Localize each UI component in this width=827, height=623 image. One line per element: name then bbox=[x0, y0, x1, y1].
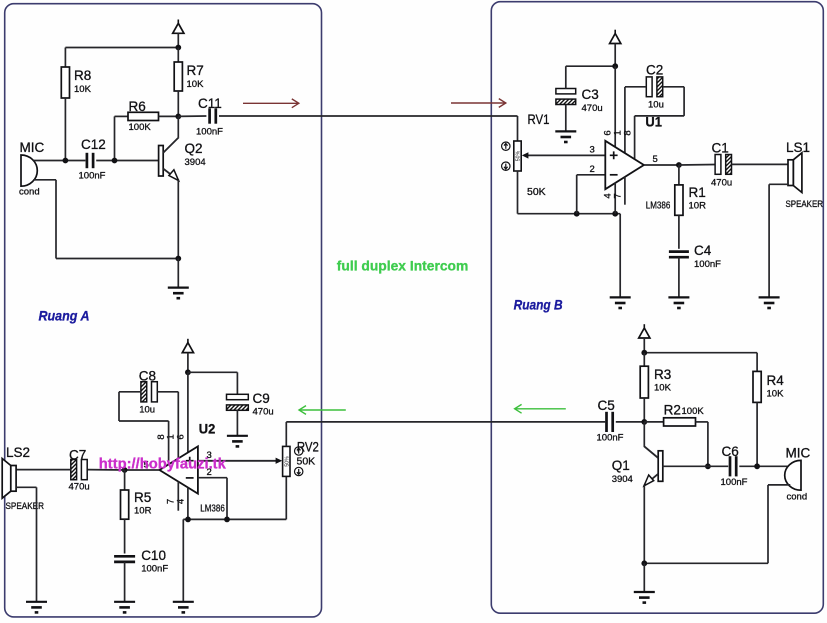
wire C3 top lead bbox=[565, 66, 567, 88]
wire C8 to pin1 bbox=[157, 391, 178, 393]
node R2-base junction bbox=[705, 463, 711, 469]
wire pin2 riser bbox=[576, 175, 578, 214]
wire R6 feedback drop bbox=[114, 116, 116, 160]
svg-text:100nF: 100nF bbox=[196, 127, 223, 138]
op-amp U1 LM386 bbox=[605, 141, 644, 189]
ground C3 bbox=[555, 131, 576, 142]
svg-text:50%: 50% bbox=[516, 150, 522, 161]
svg-text:8: 8 bbox=[156, 434, 167, 439]
svg-text:full duplex Intercom: full duplex Intercom bbox=[337, 258, 469, 274]
node VCC junction U1 bbox=[612, 63, 618, 69]
svg-text:http://hobyfauzi.tk: http://hobyfauzi.tk bbox=[99, 455, 227, 472]
wire C9 to ground bbox=[236, 410, 238, 435]
svg-text:7: 7 bbox=[613, 193, 624, 198]
wire C5 to collector node bbox=[616, 421, 645, 423]
wire LS2 to C7 bbox=[16, 469, 71, 471]
wire to ground A bbox=[177, 259, 179, 288]
wire LS1 ground drop bbox=[768, 184, 770, 296]
svg-text:C1: C1 bbox=[712, 141, 729, 156]
node pin4 junction bbox=[612, 211, 618, 217]
wire MIC B bottom lead bbox=[768, 484, 790, 486]
ground room A preamp bbox=[168, 288, 189, 299]
wire C8 loop to pin8 bbox=[119, 420, 169, 422]
wire U1 pin6 V+ bbox=[614, 66, 616, 148]
wire VCC to rail node bbox=[177, 33, 179, 47]
svg-text:8: 8 bbox=[622, 130, 633, 135]
capacitor C2 bbox=[646, 77, 662, 97]
svg-text:10K: 10K bbox=[74, 84, 92, 95]
svg-text:U2: U2 bbox=[199, 422, 216, 437]
wire U1 pin2 lead bbox=[577, 174, 606, 176]
svg-text:50K: 50K bbox=[297, 456, 316, 468]
svg-text:RV2: RV2 bbox=[297, 440, 319, 455]
potentiometer RV2 bbox=[283, 446, 291, 476]
svg-text:MIC: MIC bbox=[786, 446, 811, 461]
svg-text:SPEAKER: SPEAKER bbox=[786, 199, 824, 210]
wire R2 left lead bbox=[644, 421, 663, 423]
wire U2 pin6 V+ bbox=[187, 372, 189, 454]
resistor R6 bbox=[128, 112, 159, 120]
minus input mark U2 bbox=[186, 477, 194, 479]
wire U2 pin4 gnd bbox=[187, 488, 189, 520]
wire VCC drop U1 bbox=[614, 44, 616, 67]
wire U1 bottom rail bbox=[518, 213, 621, 215]
wire C9 top lead bbox=[236, 372, 238, 394]
svg-text:LM386: LM386 bbox=[200, 504, 225, 515]
node R8-MIC junction bbox=[63, 158, 69, 164]
capacitor C5 bbox=[607, 412, 613, 432]
wire VCC to rail node B bbox=[643, 338, 645, 353]
node pin2 junction bbox=[574, 211, 580, 217]
svg-text:U1: U1 bbox=[645, 115, 662, 130]
capacitor C6 bbox=[730, 456, 736, 476]
svg-text:6: 6 bbox=[176, 434, 187, 439]
wire R2 right lead bbox=[696, 421, 708, 423]
svg-text:2: 2 bbox=[590, 164, 595, 175]
signal arrow B to A (left) bbox=[299, 406, 346, 415]
wire LS1 return lead bbox=[769, 183, 788, 185]
node pin2 junction U2 bbox=[224, 517, 230, 523]
resistor R2 bbox=[664, 418, 696, 426]
wire C10 to ground bbox=[124, 562, 126, 601]
ground C10 bbox=[114, 602, 135, 613]
wire MIC return drop bbox=[55, 180, 57, 259]
node U1 output junction bbox=[676, 162, 682, 168]
ground room B preamp bbox=[634, 592, 655, 603]
capacitor C8 bbox=[141, 382, 157, 402]
svg-text:3: 3 bbox=[590, 145, 595, 156]
enclosure Ruang A box bbox=[5, 4, 322, 617]
node VCC rail A bbox=[175, 45, 181, 51]
svg-text:10K: 10K bbox=[767, 389, 785, 400]
svg-text:R5: R5 bbox=[134, 490, 151, 505]
plus input mark U2 bbox=[186, 457, 194, 465]
wire C2 right lead bbox=[663, 86, 684, 88]
signal arrow A to B (right) bbox=[451, 99, 506, 108]
power +V room B preamp bbox=[639, 324, 650, 338]
capacitor C1 bbox=[715, 155, 731, 175]
svg-text:SPEAKER: SPEAKER bbox=[6, 501, 45, 512]
svg-text:470u: 470u bbox=[711, 178, 732, 189]
wire to ground B bbox=[643, 563, 645, 591]
wire U1 ground drop bbox=[619, 214, 621, 297]
ground U2 bbox=[173, 602, 194, 613]
svg-text:100K: 100K bbox=[682, 406, 705, 417]
wire C8 left lead bbox=[119, 391, 141, 393]
wire U2 pin7 nc bbox=[177, 482, 179, 511]
resistor R8 bbox=[61, 67, 69, 98]
svg-text:C4: C4 bbox=[694, 243, 712, 258]
svg-text:LS1: LS1 bbox=[786, 140, 810, 155]
svg-text:R8: R8 bbox=[74, 68, 91, 83]
wire base to C6 bbox=[708, 465, 728, 467]
wire MIC B return drop bbox=[767, 485, 769, 563]
svg-text:MIC: MIC bbox=[20, 140, 45, 155]
wire intercom line B to A (bottom) bbox=[286, 421, 605, 423]
node emitter-ground junction B bbox=[641, 560, 647, 566]
transistor Q1 (mirrored) bbox=[644, 446, 663, 486]
node R4-MIC junction bbox=[754, 463, 760, 469]
svg-text:3904: 3904 bbox=[185, 157, 206, 168]
svg-text:3904: 3904 bbox=[612, 474, 633, 485]
wire C11 left lead bbox=[178, 115, 206, 117]
wire pin2 drop bbox=[226, 478, 228, 520]
resistor R4 bbox=[753, 371, 761, 402]
wire R3 bottom lead bbox=[643, 398, 645, 422]
svg-text:C7: C7 bbox=[69, 448, 86, 463]
svg-text:100nF: 100nF bbox=[141, 564, 168, 575]
svg-text:R2: R2 bbox=[664, 403, 681, 418]
wire Q1 emitter down bbox=[643, 485, 645, 563]
wire C2 loop to pin8 bbox=[635, 115, 685, 117]
microphone MIC room A bbox=[21, 155, 37, 186]
op-amp U2 LM386 (mirrored) bbox=[160, 446, 198, 493]
wire U2 bottom rail bbox=[183, 518, 286, 520]
node VCC rail B bbox=[641, 350, 647, 356]
svg-text:cond: cond bbox=[19, 187, 40, 198]
wire U1 pin4 gnd bbox=[614, 183, 616, 214]
wire C8 loop down bbox=[118, 392, 120, 421]
svg-text:R6: R6 bbox=[129, 99, 146, 114]
wire RV2 bottom lead bbox=[285, 475, 287, 520]
capacitor C3 bbox=[556, 89, 576, 105]
signal arrow B to A (right) bbox=[515, 404, 566, 413]
wire C3 to ground bbox=[565, 105, 567, 131]
svg-text:10u: 10u bbox=[648, 100, 664, 111]
wire Q1 collector bbox=[643, 422, 645, 446]
svg-text:C9: C9 bbox=[253, 391, 270, 406]
microphone MIC room B bbox=[785, 460, 801, 490]
wiper arrow RV1 bbox=[522, 152, 606, 158]
wire R2 feedback drop bbox=[707, 422, 709, 466]
wire C1 to LS1 bbox=[732, 163, 788, 165]
node pin4 junction U2 bbox=[185, 517, 191, 523]
RV1 terminal mark down bbox=[502, 162, 510, 170]
wire top rail R8-R7 bbox=[65, 47, 178, 49]
wiper arrow RV2 / U2 pin3 wire bbox=[198, 458, 282, 464]
ground U1 bbox=[610, 297, 631, 308]
wire R7 top lead bbox=[177, 48, 179, 63]
svg-text:100nF: 100nF bbox=[694, 259, 721, 270]
wire C2 loop down bbox=[683, 87, 685, 116]
capacitor C10 bbox=[114, 556, 135, 562]
power +V room A preamp bbox=[173, 20, 184, 34]
resistor R5 bbox=[121, 490, 129, 519]
wire VCC to C9 bbox=[188, 371, 238, 373]
resistor R7 bbox=[174, 62, 182, 91]
minus input mark U1 bbox=[610, 174, 618, 176]
loudspeaker LS2 bbox=[2, 459, 16, 499]
svg-text:10R: 10R bbox=[134, 506, 152, 517]
svg-text:100nF: 100nF bbox=[721, 477, 748, 488]
wire emitter return B bbox=[644, 562, 768, 564]
wire R3 top lead bbox=[643, 353, 645, 367]
svg-text:C5: C5 bbox=[598, 398, 615, 413]
wire C2 to pin1 bbox=[625, 86, 646, 88]
node emitter-ground junction bbox=[175, 256, 181, 262]
svg-text:C3: C3 bbox=[582, 87, 599, 102]
capacitor C4 bbox=[669, 252, 689, 258]
svg-text:R4: R4 bbox=[767, 373, 785, 388]
wire R6 left lead bbox=[115, 115, 129, 117]
svg-text:Ruang A: Ruang A bbox=[39, 308, 90, 324]
svg-text:LS2: LS2 bbox=[6, 445, 30, 460]
svg-text:Q1: Q1 bbox=[612, 458, 630, 473]
svg-text:100nF: 100nF bbox=[597, 433, 624, 444]
svg-text:4: 4 bbox=[176, 499, 187, 504]
RV2 terminal mark up bbox=[295, 447, 303, 455]
capacitor C9 bbox=[227, 394, 249, 410]
svg-text:cond: cond bbox=[787, 492, 808, 503]
wire R5 top lead bbox=[124, 470, 126, 490]
wire RV1 bottom lead bbox=[517, 171, 519, 214]
power +V room B amp bbox=[610, 30, 621, 44]
capacitor C11 bbox=[210, 108, 216, 123]
svg-text:LM386: LM386 bbox=[646, 201, 671, 212]
wire U2 output bbox=[125, 469, 160, 471]
wire U2 pin2 lead bbox=[198, 477, 227, 479]
plus input mark U1 bbox=[610, 151, 618, 159]
wire R1 to C4 bbox=[678, 215, 680, 249]
capacitor C12 bbox=[87, 153, 93, 168]
wire U1 pin8 bbox=[634, 116, 636, 159]
svg-text:RV1: RV1 bbox=[528, 112, 550, 127]
RV1 terminal mark up bbox=[502, 142, 510, 150]
svg-text:C2: C2 bbox=[646, 63, 663, 78]
svg-text:7: 7 bbox=[165, 499, 176, 504]
svg-text:10K: 10K bbox=[654, 383, 672, 394]
wire C12 to Q2 base bbox=[96, 160, 159, 162]
node R6-base junction bbox=[112, 158, 118, 164]
svg-text:10u: 10u bbox=[139, 405, 155, 416]
svg-text:C10: C10 bbox=[141, 548, 166, 563]
wire U2 pin8 bbox=[168, 421, 170, 467]
svg-text:470u: 470u bbox=[69, 482, 90, 493]
loudspeaker LS1 bbox=[788, 153, 802, 193]
svg-text:C11: C11 bbox=[198, 96, 222, 111]
wire R1 top lead bbox=[678, 165, 680, 185]
svg-text:100K: 100K bbox=[129, 122, 152, 133]
svg-text:50%: 50% bbox=[285, 456, 291, 467]
power +V room A amp bbox=[182, 339, 193, 353]
wire RV2 top lead bbox=[285, 422, 287, 447]
capacitor C7 bbox=[71, 460, 87, 480]
wire Q2 emitter down bbox=[177, 180, 179, 259]
wire Q2 collector bbox=[177, 116, 179, 137]
svg-text:470u: 470u bbox=[253, 407, 274, 418]
svg-text:50K: 50K bbox=[527, 186, 546, 198]
wire R7 to base node bbox=[177, 91, 179, 116]
wire output to C1 bbox=[679, 164, 716, 167]
svg-text:Q2: Q2 bbox=[185, 141, 203, 156]
node Q2 collector junction bbox=[175, 114, 181, 120]
svg-text:R1: R1 bbox=[689, 185, 706, 200]
wire MIC to C12 bbox=[33, 160, 85, 162]
svg-text:Ruang B: Ruang B bbox=[514, 297, 563, 313]
wire output to C7 bbox=[88, 469, 125, 471]
svg-text:10R: 10R bbox=[689, 201, 707, 212]
wire R4 top lead bbox=[756, 353, 758, 372]
wire C4 to ground bbox=[678, 257, 680, 297]
enclosure Ruang B box bbox=[491, 2, 823, 614]
wire R8 top lead bbox=[64, 48, 66, 68]
wire emitter return bbox=[56, 258, 178, 260]
wire VCC drop U2 bbox=[187, 353, 189, 373]
svg-text:C8: C8 bbox=[139, 369, 156, 384]
RV2 terminal mark down bbox=[295, 467, 303, 475]
ground C9 bbox=[227, 436, 248, 447]
svg-text:5: 5 bbox=[653, 154, 658, 165]
svg-text:C6: C6 bbox=[722, 444, 739, 459]
wire U2 ground drop bbox=[182, 519, 184, 601]
ground LS2 bbox=[26, 602, 47, 613]
wire top rail R3-R4 bbox=[644, 352, 757, 354]
wire U2 pin1 bbox=[177, 392, 179, 461]
wire R6 right lead bbox=[159, 115, 179, 117]
node Q1 collector junction bbox=[641, 419, 647, 425]
svg-text:470u: 470u bbox=[582, 103, 603, 114]
wire C6 to MIC bbox=[739, 465, 789, 467]
wire U1 output bbox=[644, 164, 679, 166]
svg-text:R3: R3 bbox=[654, 367, 671, 382]
transistor Q2 bbox=[159, 137, 179, 180]
node U2 output junction bbox=[122, 467, 128, 473]
potentiometer RV1 bbox=[514, 141, 522, 171]
svg-text:R7: R7 bbox=[187, 63, 204, 78]
ground LS1 bbox=[759, 297, 780, 308]
wire R4 bottom lead bbox=[756, 402, 758, 466]
wire C3 to VCC rail bbox=[566, 65, 615, 67]
wire U1 pin1 bbox=[624, 87, 626, 153]
wire Q1 base lead bbox=[662, 465, 708, 467]
wire intercom line A to B (top) bbox=[219, 115, 518, 117]
wire LS2 ground drop bbox=[36, 487, 38, 601]
wire R5 to C10 bbox=[124, 519, 126, 553]
node VCC junction U2 bbox=[185, 369, 191, 375]
svg-text:100nF: 100nF bbox=[79, 171, 106, 182]
wire U1 pin7 nc bbox=[624, 177, 626, 205]
svg-text:10K: 10K bbox=[187, 79, 205, 90]
wire R8 bottom lead bbox=[64, 98, 66, 161]
wire LS2 return lead bbox=[16, 486, 36, 488]
svg-text:C12: C12 bbox=[81, 137, 106, 152]
signal arrow A to B (left) bbox=[243, 99, 299, 108]
resistor R1 bbox=[675, 185, 683, 215]
ground C4 bbox=[668, 297, 689, 308]
wire line to RV1 top bbox=[517, 116, 519, 141]
resistor R3 bbox=[640, 366, 648, 398]
wire MIC bottom lead bbox=[33, 179, 56, 181]
